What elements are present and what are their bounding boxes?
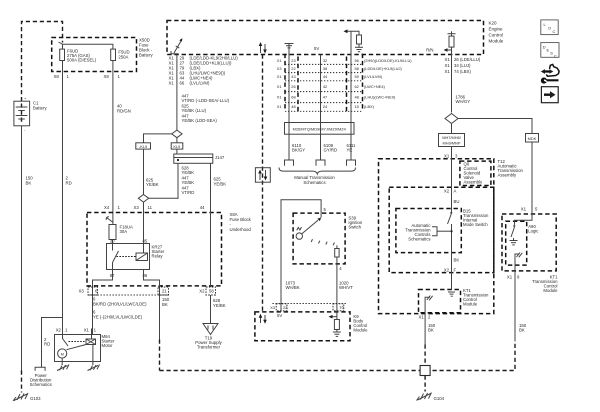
svg-text:23: 23: [291, 58, 295, 63]
svg-text:68: 68: [291, 95, 295, 100]
pin X8 1 left under X50D: [54, 74, 70, 79]
transmission control module KT1 left dashed box: [419, 288, 489, 313]
wire J147 left leg 628/447 labels: [178, 163, 194, 199]
svg-text:Schematics: Schematics: [30, 382, 52, 387]
fuse F18UA: [109, 225, 133, 249]
svg-text:48: 48: [291, 104, 295, 109]
wire grid left column: [288, 55, 290, 135]
switch inside A90: [510, 225, 518, 245]
svg-text:44: 44: [200, 205, 205, 210]
pin X4 1 on X8A top: [104, 205, 121, 210]
svg-text:Battery: Battery: [139, 53, 153, 58]
svg-text:58: 58: [209, 289, 214, 294]
svg-text:MH9/MNP: MH9/MNP: [443, 141, 461, 146]
ignition switch feed wire 1073 WH/BK: [281, 200, 321, 304]
svg-text:66: 66: [180, 81, 185, 86]
starter contact and solenoid inside M64: [63, 329, 96, 350]
svg-text:X1: X1: [444, 154, 450, 159]
feed tick above fuse F18UA: [106, 217, 112, 223]
wire 625 YE/BK through X8A pin 44 to X2 58: [211, 163, 227, 287]
terminal 6110: [285, 160, 294, 166]
svg-text:Module: Module: [489, 39, 504, 44]
svg-text:X1: X1: [169, 81, 175, 86]
wire battery feed dashed from battery to X50D fuse block: [22, 22, 63, 102]
svg-text:YE/BK: YE/BK: [213, 303, 226, 308]
serial data symbol box mid: [255, 168, 270, 183]
svg-text:YE/BK: YE/BK: [182, 180, 195, 185]
svg-text:X3: X3: [134, 205, 140, 210]
node 5V grid middle column: [314, 46, 321, 134]
svg-text:250A: 250A: [118, 55, 128, 60]
svg-text:(LBX): (LBX): [364, 104, 375, 109]
svg-text:BK: BK: [162, 302, 168, 307]
connector MH7/MH8/MH9/MNP: [439, 124, 465, 147]
starter motor M64: [55, 328, 115, 362]
splice junction S-box on ground bus: [420, 366, 430, 376]
bus bar inside X50D: [59, 42, 113, 49]
wire MDK to KT1 X1 5: [515, 142, 539, 225]
control solenoid valve assembly Q6 dashed box: [460, 161, 491, 185]
svg-text:Schematics: Schematics: [303, 180, 325, 185]
svg-text:(LHU)(LWC+NE9): (LHU)(LWC+NE9): [364, 95, 396, 100]
wire 1786 WH/GY: [452, 55, 471, 113]
pin X3 11 on X8A top: [134, 205, 153, 210]
icon button arrow: [541, 87, 558, 103]
svg-text:(2H9/)(LDD/LDE)-KL9/LLU): (2H9/)(LDD/LDE)-KL9/LLU): [364, 58, 412, 63]
wire 150 BK from KT1 X1 9: [507, 261, 527, 342]
svg-text:X2: X2: [56, 328, 62, 333]
transformer T19: [195, 324, 222, 350]
svg-text:A: A: [454, 189, 457, 194]
svg-text:X1: X1: [277, 58, 282, 63]
resistor and ground inside K9: [329, 304, 341, 337]
ground G103: [13, 393, 41, 401]
svg-text:MDK: MDK: [528, 136, 537, 141]
wire 6111 YE: [347, 134, 357, 160]
svg-text:16: 16: [339, 304, 343, 309]
svg-text:RD/GN: RD/GN: [117, 109, 131, 114]
svg-text:X1: X1: [277, 84, 282, 89]
connector -KL9: [136, 143, 151, 149]
svg-text:59: 59: [355, 74, 359, 79]
relay KR27: [107, 239, 165, 279]
svg-text:X2: X2: [199, 289, 205, 294]
svg-text:Control: Control: [489, 33, 504, 38]
node K20 pin column X1 29..66: [169, 56, 239, 86]
wire -KL9 to splice2 with 625 YE/BK label: [144, 149, 159, 194]
svg-text:VT/RD (-LDD-SEA/-LLU): VT/RD (-LDD-SEA/-LLU): [182, 98, 230, 103]
svg-text:X4: X4: [104, 205, 110, 210]
svg-text:WH/VT: WH/VT: [339, 285, 353, 290]
serial data arrows at K20: [259, 42, 267, 54]
chassis ground tap inside A90: [515, 253, 522, 261]
dotted connector line X8A bottom: [89, 294, 169, 296]
pin box X3 6 on X8A bottom: [79, 287, 99, 295]
pull-up resistor and ground inside K20 right column: [344, 29, 364, 51]
svg-text:WH/BK: WH/BK: [286, 285, 300, 290]
fuse F6UD: [60, 49, 97, 63]
svg-text:22: 22: [291, 66, 295, 71]
svg-text:43: 43: [291, 74, 295, 79]
fuse block X50D dashed box: [52, 38, 154, 72]
wire 6110 BK/GY: [289, 134, 305, 160]
svg-text:YE/BK (LDD-SEA): YE/BK (LDD-SEA): [182, 118, 218, 123]
serial data dashed wire from K20 to K9: [262, 55, 264, 312]
reference automatic transmission controls schematics: [405, 223, 452, 242]
ground under solenoid: [88, 365, 100, 371]
svg-text:-KL9: -KL9: [139, 144, 147, 149]
svg-text:J147: J147: [215, 155, 225, 160]
svg-text:Logic: Logic: [528, 229, 539, 234]
pin box X2 58 on X8A bottom: [199, 287, 215, 295]
svg-text:BK/GY: BK/GY: [292, 148, 305, 153]
mode switch B15 dashed box: [396, 209, 489, 253]
wire splice3 to MDK: [458, 119, 532, 134]
node K20 pins X1 26/34/74: [445, 57, 481, 74]
terminal 6109: [316, 160, 325, 166]
svg-text:(LWC+NE4): (LWC+NE4): [364, 84, 385, 89]
svg-text:Motor: Motor: [102, 343, 114, 348]
pin box 16: [333, 304, 344, 311]
svg-text:X8: X8: [54, 74, 60, 79]
pin box X3 22: [270, 304, 287, 319]
wire 447 VT/RD from K20 to splice: [177, 55, 230, 131]
svg-text:YE/BK: YE/BK: [214, 181, 227, 186]
wire 150 BK battery to ground: [22, 126, 34, 393]
svg-text:X1: X1: [507, 275, 513, 280]
svg-text:26 (LDE/LLU): 26 (LDE/LLU): [454, 57, 481, 62]
svg-text:RD: RD: [66, 181, 72, 186]
svg-text:11: 11: [148, 205, 153, 210]
svg-text:M26/MTQ/MD9/MYJ/MZ9/MZ4: M26/MTQ/MD9/MYJ/MZ9/MZ4: [293, 126, 347, 131]
svg-text:VT/RD: VT/RD: [182, 190, 195, 195]
svg-text:X1: X1: [277, 104, 282, 109]
svg-text:C: C: [553, 29, 556, 34]
svg-text:58: 58: [355, 66, 359, 71]
svg-text:Schematics: Schematics: [408, 237, 430, 242]
inner connector dashed box2 of T12: [389, 187, 494, 272]
icon button DESC: [541, 43, 559, 59]
svg-text:56: 56: [355, 58, 359, 63]
svg-text:21: 21: [162, 289, 167, 294]
svg-text:500A (DIESEL): 500A (DIESEL): [67, 58, 97, 63]
splice node diamond 3: [445, 114, 458, 124]
svg-text:(LVL/LVM): (LVL/LVM): [190, 81, 210, 86]
connector pin grid dashed table: [285, 54, 363, 112]
svg-text:X1: X1: [445, 63, 451, 68]
svg-text:BK: BK: [26, 181, 32, 186]
internal ground for grid left wire in K20: [285, 44, 294, 55]
logic block A90 dashed box: [506, 221, 540, 265]
svg-text:X2: X2: [444, 268, 450, 273]
svg-text:30: 30: [110, 239, 115, 244]
driver switch inside K20: [171, 38, 182, 54]
junction block J147: [174, 149, 225, 163]
icon wrench with arrow: [541, 64, 559, 83]
svg-text:38: 38: [323, 66, 327, 71]
svg-text:5V: 5V: [314, 46, 319, 51]
svg-text:48: 48: [355, 95, 359, 100]
svg-text:BK: BK: [519, 328, 525, 333]
svg-text:34 (LUJ): 34 (LUJ): [454, 63, 471, 68]
svg-text:O: O: [548, 26, 551, 31]
pin X2 A: [444, 189, 457, 194]
engine control module K20 dashed box: [167, 21, 504, 55]
svg-text:Engine: Engine: [489, 27, 504, 32]
svg-text:Assembly: Assembly: [498, 173, 517, 178]
wire 40 RD/GN from F5UD down to X8A: [113, 61, 131, 225]
fuse block X8A underhood dashed box: [87, 212, 252, 286]
icon button LOC: [541, 20, 558, 35]
svg-text:X1: X1: [277, 74, 282, 79]
svg-text:S: S: [550, 51, 553, 56]
svg-text:X3: X3: [79, 289, 85, 294]
svg-text:X2: X2: [444, 189, 450, 194]
svg-text:BK/RD (2H0/LVL/LWC/LDE): BK/RD (2H0/LVL/LWC/LDE): [93, 301, 147, 306]
svg-text:WH/GY: WH/GY: [456, 99, 471, 104]
wire BK to X2 F: [444, 258, 459, 273]
svg-text:X1: X1: [419, 315, 425, 320]
transmission M26 box: [285, 123, 355, 135]
wire 628 YE/BK to transformer: [211, 295, 226, 324]
internal ground for B15 wire inside KT1: [448, 292, 455, 296]
svg-text:47: 47: [323, 95, 327, 100]
svg-text:Underhood: Underhood: [230, 227, 252, 232]
svg-text:Module: Module: [353, 328, 368, 333]
ground under motor: [57, 365, 69, 371]
svg-text:(LVL/LVM): (LVL/LVM): [364, 74, 383, 79]
svg-text:C: C: [554, 54, 557, 59]
svg-text:42: 42: [323, 84, 327, 89]
wire 2 RD from F6UD down to starter: [44, 61, 72, 347]
svg-text:Module: Module: [543, 288, 558, 293]
svg-text:YE/BK (LLU): YE/BK (LLU): [182, 108, 207, 113]
svg-text:D: D: [543, 45, 546, 50]
terminal 6111: [347, 160, 356, 166]
ground bus dashed wire 150 BK: [160, 342, 516, 371]
transmission control module KT1 right dashed box: [502, 214, 558, 293]
serial data arrows at K9: [259, 314, 267, 324]
ground G104: [417, 393, 445, 402]
svg-text:KL9: KL9: [173, 144, 180, 149]
svg-text:32: 32: [323, 58, 327, 63]
transmission assembly T12 dashed box: [379, 159, 524, 314]
svg-text:F: F: [454, 268, 457, 273]
splice node diamond 2: [138, 195, 178, 203]
svg-text:BU: BU: [454, 199, 460, 204]
svg-text:Battery: Battery: [33, 106, 47, 111]
battery C1: [14, 96, 48, 132]
svg-text:BK: BK: [454, 258, 460, 263]
switch B15 contact: [448, 212, 453, 290]
wire splice to -KL9: [144, 134, 172, 143]
svg-text:YE: YE: [347, 148, 353, 153]
pull-up resistor R/N inside K20: [426, 31, 455, 54]
svg-text:X8: X8: [104, 74, 110, 79]
svg-text:Switch: Switch: [348, 225, 361, 230]
svg-text:G104: G104: [434, 396, 445, 401]
wire BU to B15: [452, 187, 460, 211]
svg-text:Mode Switch: Mode Switch: [463, 222, 488, 227]
svg-text:5V: 5V: [277, 313, 282, 318]
rotary switch inside S39: [296, 213, 334, 245]
starter motor armature M: [58, 345, 93, 366]
wire 6109 GY/RD: [321, 134, 338, 160]
resistor inside S39: [335, 245, 343, 271]
svg-text:26: 26: [291, 84, 295, 89]
connector MDK: [526, 134, 539, 143]
brace manual transmission schematics: [279, 168, 356, 186]
svg-text:M: M: [61, 351, 64, 356]
svg-text:K20: K20: [489, 21, 498, 26]
wire grid right column: [350, 31, 352, 134]
svg-text:R/N: R/N: [426, 48, 433, 53]
svg-text:YE (-(2H0/LVL/LWC/LDE): YE (-(2H0/LVL/LWC/LDE): [93, 314, 143, 319]
svg-text:Assembly: Assembly: [464, 180, 483, 185]
wire 150 BK from KT1 X1 2: [419, 303, 436, 366]
pin 44 on X8A top: [200, 205, 205, 210]
svg-text:22: 22: [283, 305, 287, 310]
svg-text:X1: X1: [84, 328, 90, 333]
wire 1020 WH/VT: [337, 264, 353, 304]
svg-text:X1: X1: [445, 69, 451, 74]
svg-text:GY/RD: GY/RD: [324, 148, 338, 153]
wire 6 BK/RD to starter motor: [93, 297, 147, 320]
wire branch to power distribution reference: [42, 318, 63, 368]
terminal power distribution schematics: [30, 367, 52, 387]
svg-text:Relay: Relay: [152, 254, 164, 259]
svg-text:Module: Module: [463, 302, 478, 307]
connector dotted line K9 pins: [273, 303, 347, 305]
chassis ground tap inside KT1: [425, 296, 433, 303]
wire relay 86 to pin 21: [144, 270, 160, 340]
svg-text:MH7/MH8/: MH7/MH8/: [442, 135, 462, 140]
svg-text:Fuse Block: Fuse Block: [230, 217, 252, 222]
svg-text:62: 62: [355, 84, 359, 89]
fuse F5UD: [111, 49, 130, 60]
svg-text:YE/BK: YE/BK: [182, 170, 195, 175]
grid row pin numbers: [277, 58, 413, 109]
svg-text:30A: 30A: [120, 229, 128, 234]
svg-text:BK: BK: [428, 328, 434, 333]
ignition switch S39 dashed box: [293, 207, 363, 264]
svg-text:X3: X3: [270, 305, 275, 310]
pin X8 1 right under X50D: [104, 74, 121, 79]
svg-text:G103: G103: [30, 396, 41, 401]
svg-text:E: E: [547, 48, 550, 53]
svg-text:74 (LBX): 74 (LBX): [454, 69, 472, 74]
wire relay 87 to starter pin: [93, 270, 113, 335]
wire 150 BK from pin 21: [160, 297, 170, 371]
pin X1 3 into T12: [444, 147, 458, 188]
svg-text:YE/BK: YE/BK: [146, 182, 159, 187]
body control module K9 dashed box: [255, 312, 368, 341]
svg-text:RD: RD: [44, 342, 50, 347]
pin box 21 on X8A bottom: [158, 287, 169, 295]
wire splice2 down to relay coil 85: [143, 202, 145, 243]
splice node diamond: [172, 130, 182, 138]
connector KL9: [171, 138, 183, 149]
dashed wire junction to G104: [424, 376, 426, 392]
svg-text:X3: X3: [277, 66, 282, 71]
svg-text:(LDD/LDE)+KL9(LUJ): (LDD/LDE)+KL9(LUJ): [364, 66, 402, 71]
svg-text:Transformer: Transformer: [197, 345, 221, 350]
svg-text:15: 15: [355, 104, 359, 109]
svg-text:X1: X1: [277, 95, 282, 100]
svg-text:X1: X1: [445, 57, 451, 62]
svg-text:X1: X1: [521, 207, 527, 212]
